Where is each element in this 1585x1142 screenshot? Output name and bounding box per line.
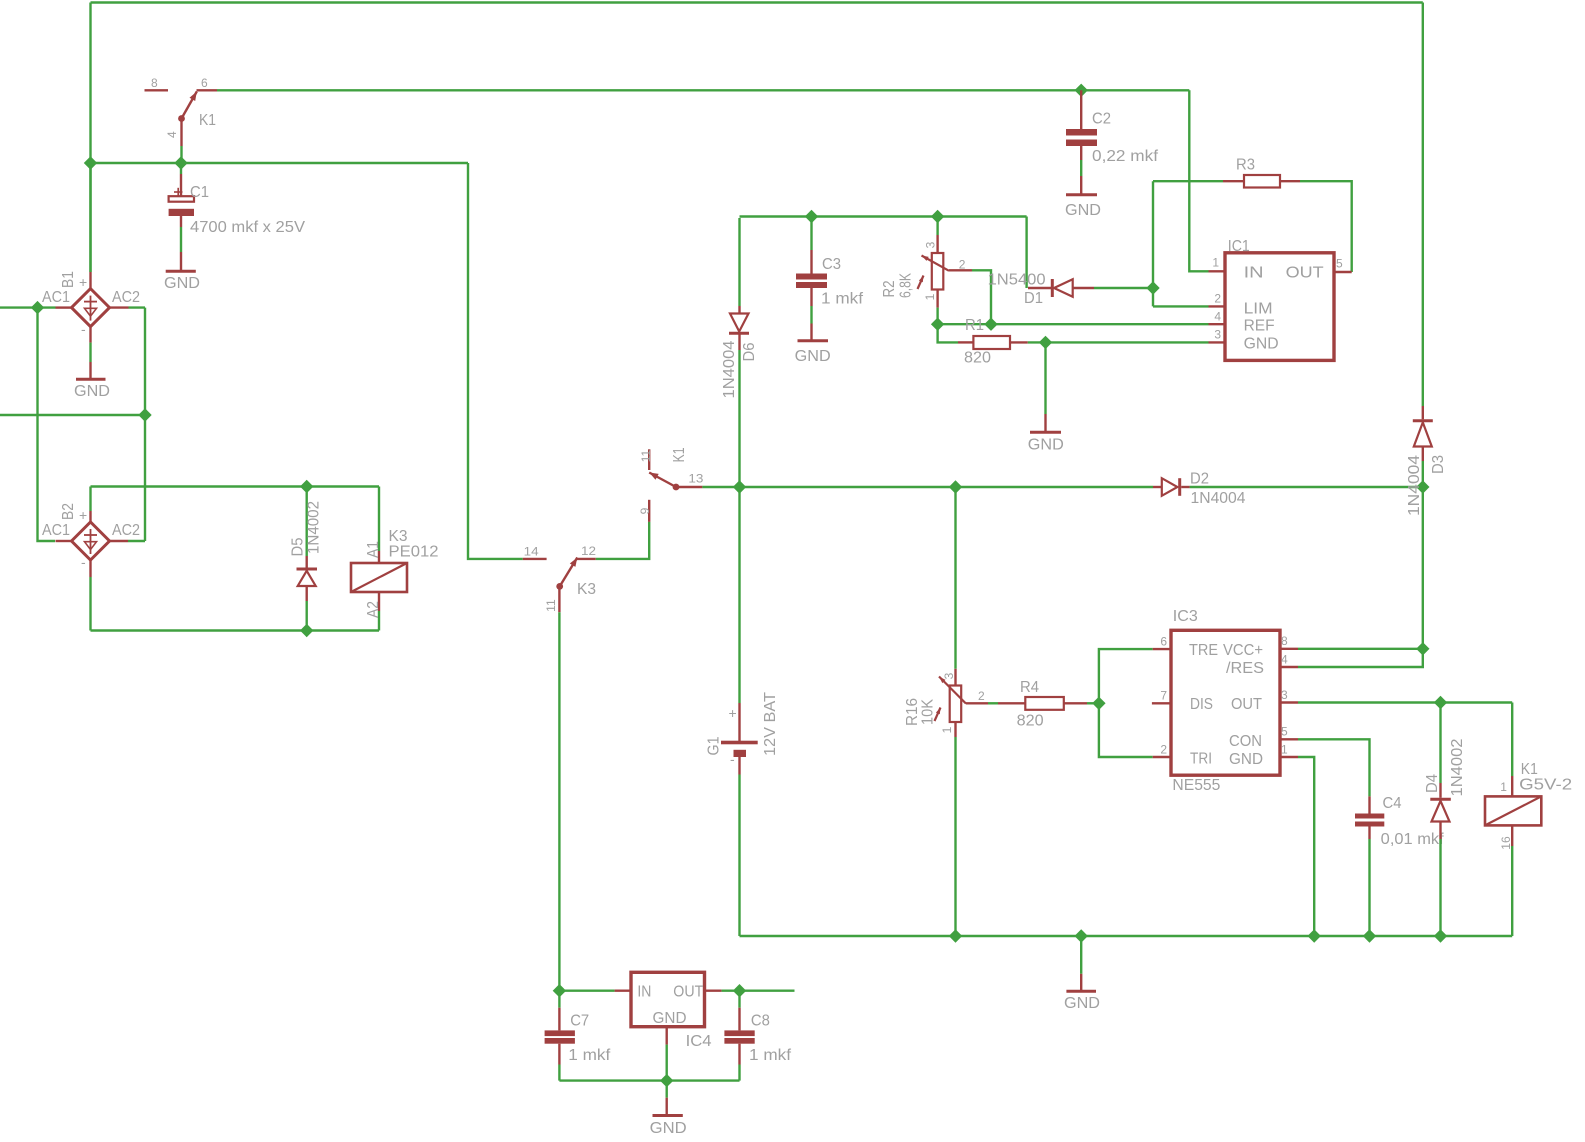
wire R2 wiper to LIM net [972,270,991,324]
svg-text:AC1: AC1 [42,289,70,306]
wire relay loop bottom [91,629,380,631]
svg-text:IC3: IC3 [1173,608,1198,625]
wire R16 wiper to R4 [988,702,998,704]
label IC3 pin5 [1281,725,1288,739]
junction rail 555 gnd [1308,929,1321,942]
svg-text:4700 mkf x 25V: 4700 mkf x 25V [190,219,305,236]
label D5 name [289,537,306,556]
pin IC3 7 DIS stub [1152,702,1171,704]
label K3 pin 12 [581,544,596,558]
label IC3 pin4 [1281,653,1288,667]
pin IC1 3 GND stub [1209,341,1226,343]
label IC3 OUT [1231,696,1262,713]
wire relay loop top [91,485,380,487]
svg-text:G5V-2: G5V-2 [1519,777,1572,794]
label IC4 GND symbol [650,1120,687,1137]
junction rail R16 [949,929,962,942]
switch K1 pin 6 stub [197,89,218,91]
switch K1b pin 13 stub [676,486,702,488]
label R2 name [881,280,898,297]
junction C8 top [733,984,746,997]
wire R1 gnd stem [1044,342,1046,414]
wire to K3 pin14 [468,163,523,559]
wire IC4 gnd stem [666,1045,668,1098]
junction D1 net [1146,281,1159,294]
wire D1 anode [1094,287,1153,289]
wire AC2 vertical [144,308,146,541]
wire rail corner to D1 [1025,217,1027,289]
svg-text:5: 5 [1336,257,1343,271]
switch K3 pin 9 stub [648,500,650,522]
svg-text:-: - [81,321,86,337]
svg-text:PE012: PE012 [389,544,439,561]
svg-text:1 mkf: 1 mkf [821,291,864,308]
label IC3 VCC+ [1223,642,1263,659]
junction VCC/right border [1416,642,1429,655]
svg-text:K3: K3 [577,581,596,598]
wire K3.11 down [558,612,560,991]
svg-text:4: 4 [1214,310,1221,324]
diode D2 [1153,478,1190,496]
pin K1 coil 1 stub [1511,776,1513,796]
wire loop right down [378,487,380,552]
wire C4 bottom [1368,839,1370,936]
wire 555 GND net [1298,757,1314,936]
svg-text:TRI: TRI [1190,751,1212,768]
svg-text:7: 7 [1160,689,1167,703]
svg-text:1: 1 [1281,743,1288,757]
svg-text:D6: D6 [741,342,758,361]
label D1 name [1024,290,1043,307]
wire IC4 OUT right [722,990,795,992]
junction D4 top [1434,696,1447,709]
capacitor C8 [724,1008,754,1065]
label K3 pin 11 [544,599,558,612]
op-amp U IC4 box [631,972,705,1026]
label D3 name [1430,455,1447,474]
wire R2 bottom [936,308,938,325]
bridge rectifier B1 [72,289,110,327]
pin IC3 8 VCC stub [1280,648,1298,650]
label IC1 pin1 [1212,256,1219,270]
svg-text:11: 11 [544,599,558,612]
pin B1 AC2 stub [110,306,129,308]
svg-text:AC1: AC1 [42,522,70,539]
svg-text:D2: D2 [1190,471,1209,488]
svg-text:16: 16 [1499,836,1513,850]
pin B2 - stub [89,560,91,577]
wire C3 top [810,217,812,251]
label G1 plus [729,705,737,721]
svg-text:OUT: OUT [1231,696,1262,713]
label D1 value [988,272,1046,289]
label R16 value [920,699,937,725]
label C2 name [1092,111,1111,128]
junction R2 bottom [931,318,944,331]
junction R2 top rail [931,210,944,223]
wire right border [1422,3,1424,407]
junction C3 top rail [805,210,818,223]
wire D4 top [1439,703,1441,784]
diode D6 [729,306,749,350]
svg-text:R4: R4 [1020,679,1039,696]
label C8 name [751,1013,770,1030]
wire battery bottom [738,775,740,937]
label D2 name [1190,471,1209,488]
svg-text:K1: K1 [199,112,216,129]
svg-text:R2: R2 [881,280,898,297]
svg-text:2: 2 [1214,292,1221,306]
label R1 name [965,317,984,334]
junction rail C4 [1363,929,1376,942]
label IC1 GND [1244,336,1279,353]
pin B2 + stub [89,511,91,522]
label IC4 name [686,1033,712,1050]
label K1 coil value [1519,777,1572,794]
svg-text:6,8K: 6,8K [898,273,915,298]
wire R2 top [936,217,938,236]
svg-text:R3: R3 [1236,157,1255,174]
wire K1.6 to IC1 area [217,89,1189,91]
wire B1 AC2 to vertical [129,306,146,308]
wire 555 TRE loop [1099,649,1153,757]
label IC4 IN [637,983,651,1000]
wire B1 plus up [89,163,91,272]
svg-text:13: 13 [688,472,703,486]
label IC1 IN [1244,265,1264,282]
label K3 name [389,528,408,545]
label K1a pin 4 [165,131,179,138]
pin B1 + stub [89,272,91,289]
label C4 name [1383,795,1402,812]
svg-text:820: 820 [964,350,991,367]
label B2 name [60,503,77,520]
wire B2 plus up [89,487,91,512]
svg-text:1: 1 [923,293,937,300]
svg-text:TRE: TRE [1189,642,1218,659]
label G1 minus [730,751,735,767]
svg-text:K1: K1 [671,447,688,462]
svg-text:GND: GND [74,383,110,400]
svg-text:3: 3 [924,241,938,248]
diode D4 [1430,783,1451,839]
svg-text:1N4002: 1N4002 [1449,738,1466,796]
wire down to IC1 IN [1189,90,1208,271]
label K3 A2 [365,601,382,618]
label B1 name [60,271,77,288]
pin IC4 OUT stub [705,990,722,992]
svg-text:2: 2 [959,258,966,272]
label K1a pin 8 [151,76,158,90]
svg-text:1N5400: 1N5400 [988,272,1046,289]
label G1 name [705,736,722,755]
switch K1 pin 8 stub [145,89,169,91]
ground GND C2 [1066,176,1097,195]
wire R1 right to IC1 GND [1028,341,1209,343]
label IC3 CON [1229,733,1262,750]
pin IC1 2 LIM stub [1209,305,1226,307]
label R16 pin 2 [978,689,985,703]
label R1 GND [1028,437,1064,454]
label B2 AC1 [42,522,70,539]
diode D1 [1028,279,1094,297]
label B1 minus [81,321,86,337]
wire K1.4 to junction [180,146,182,163]
svg-text:GND: GND [653,1010,687,1027]
svg-text:GND: GND [1229,751,1263,768]
pin IC1 4 REF stub [1209,323,1226,325]
pin B2 AC2 stub [110,540,129,542]
label IC1 pin3 [1214,328,1221,342]
wire left border [89,3,91,273]
switch K1a lever [178,92,197,122]
svg-text:LIM: LIM [1244,301,1273,318]
label C3 value [821,291,864,308]
pin IC3 2 TRI stub [1153,756,1171,758]
svg-text:OUT: OUT [673,983,703,1000]
label rail GND [1064,995,1100,1012]
svg-text:B1: B1 [60,271,77,288]
svg-text:VCC+: VCC+ [1223,642,1263,659]
wire C2 bottom [1080,160,1082,176]
label IC3 TRE [1189,642,1218,659]
wire main vertical D6 top [738,218,740,306]
pin IC1 1 IN stub [1209,270,1226,272]
capacitor C4 [1355,796,1384,839]
wire AC line y163 [91,162,469,164]
wire C3 bottom [810,306,812,324]
svg-text:1N4002: 1N4002 [305,501,322,554]
svg-text:G1: G1 [705,736,722,755]
label C2 GND [1065,202,1101,219]
label C1 GND [164,275,200,292]
label IC3 name [1173,608,1198,625]
switch K3 pin 12 stub [577,558,596,560]
pin IC4 IN stub [615,990,631,992]
wire IN to IC4 [559,990,614,992]
pin IC3 5 CON stub [1280,738,1298,740]
switch K3 lever [556,558,577,590]
label K3 A1 [365,541,382,558]
junction C1 / K1.4 [174,156,187,169]
wire C1 top [180,163,182,174]
svg-text:1 mkf: 1 mkf [749,1047,792,1064]
label K3 pin 9 [638,507,652,514]
junction AC2 vertical [138,408,151,421]
junction R16 top [949,480,962,493]
pin IC4 GND stub [666,1027,668,1045]
pin K3 A1 stub [378,551,380,563]
wire LIM into IC1 [1153,305,1209,307]
wire D5 bottom [306,601,308,631]
svg-text:3: 3 [942,672,956,679]
svg-text:12: 12 [581,544,596,558]
ground GND B1 [76,362,106,379]
pin B1 AC1 stub [56,306,72,308]
label IC1 LIM [1244,301,1273,318]
svg-text:4: 4 [1281,653,1288,667]
label C2 value [1092,148,1159,165]
wire R3 left [1153,180,1223,182]
svg-text:IC1: IC1 [1228,238,1250,255]
svg-text:2: 2 [978,689,985,703]
svg-text:1: 1 [1500,780,1507,794]
label IC1 REF [1244,318,1275,335]
label K1a name [199,112,216,129]
svg-text:IN: IN [637,983,651,1000]
svg-text:NE555: NE555 [1172,777,1220,794]
switch K1 pin 4 stub [180,120,182,146]
switch K3 pin 14 stub [523,558,547,560]
label C4 value [1381,831,1445,848]
junction left border / AC line [84,156,97,169]
svg-text:4: 4 [165,131,179,138]
wire right vertical to 555 [1422,487,1424,649]
svg-text:GND: GND [795,348,831,365]
label K1 coil pin1 [1500,780,1507,794]
pin IC3 6 TRE stub [1153,648,1171,650]
wire C1 bottom [180,227,182,252]
label C1 name [190,184,209,201]
label C3 GND [795,348,831,365]
label R16 pin 1 [940,726,954,733]
label D5 value [305,501,322,554]
label B2 minus [81,554,86,570]
pin IC3 1 GND stub [1280,756,1298,758]
svg-text:11: 11 [639,449,653,462]
label IC3 /RES [1226,660,1264,677]
junction C2 top [1075,84,1088,97]
svg-text:-: - [730,751,735,767]
pin IC1 5 OUT stub [1334,271,1352,273]
svg-text:R1: R1 [965,317,984,334]
label R2 pin 2 [959,258,966,272]
label IC3 pin2 [1160,743,1167,757]
ground GND C1 [166,252,196,271]
diode D5 [297,556,318,601]
pin R2 wiper stub [949,269,972,271]
wire bus y487 left [740,486,1154,488]
wire AC1 down to B2 [38,308,56,541]
svg-text:GND: GND [1244,336,1279,353]
svg-text:5: 5 [1281,725,1288,739]
junction D5 top [300,480,313,493]
label D4 value [1449,738,1466,796]
pin B2 AC1 stub [56,540,72,542]
relay coil K3 [351,563,407,592]
svg-text:AC2: AC2 [112,522,140,539]
junction main vertical y487 [733,480,746,493]
svg-text:AC2: AC2 [112,289,140,306]
svg-text:1: 1 [1212,256,1219,270]
diode D3 [1413,406,1433,461]
junction K3.11 / IC4 IN [553,984,566,997]
resistor R3 [1223,175,1300,188]
label C1 value [190,219,305,236]
label B2 AC2 [112,522,140,539]
svg-text:1N4004: 1N4004 [1406,455,1423,516]
wire D5 top [306,487,308,557]
svg-text:B2: B2 [60,503,77,520]
svg-text:GND: GND [650,1120,687,1137]
label R2 pin 1 [923,293,937,300]
wire rail to relay K1 coil [1511,846,1513,936]
potentiometer R16 [935,669,967,737]
svg-text:GND: GND [164,275,200,292]
label R2 pin 3 [924,241,938,248]
label D6 name [741,342,758,361]
wire bus y487 right [1190,486,1423,488]
label K1b name [671,447,688,462]
label IC3 DIS [1190,696,1213,713]
svg-text:12V BAT: 12V BAT [762,692,779,756]
label K1 coil pin16 [1499,836,1513,850]
svg-text:IN: IN [1244,265,1264,282]
label D4 name [1424,774,1441,793]
label IC4 GND [653,1010,687,1027]
pin R16 wiper stub [966,702,988,704]
svg-text:10K: 10K [920,699,937,725]
svg-text:C3: C3 [822,256,841,273]
label R2 value [898,273,915,298]
svg-text:820: 820 [1017,713,1044,730]
svg-text:D5: D5 [289,537,306,556]
capacitor C7 [545,1008,575,1065]
label B2 plus [79,507,87,523]
svg-text:1: 1 [940,726,954,733]
label B1 AC2 [112,289,140,306]
wire C8 top [738,991,740,1008]
svg-text:R16: R16 [904,698,921,726]
pin IC3 3 OUT stub [1280,701,1298,703]
label B1 plus [79,274,87,290]
svg-text:8: 8 [1281,634,1288,648]
label R16 name [904,698,921,726]
wire rail gnd stem [1080,936,1082,974]
wire C8 bottom [738,1065,740,1081]
junction R1 GND net [1039,336,1052,349]
wire C7 bottom [558,1065,560,1081]
switch K1b lever [649,473,679,491]
svg-text:8: 8 [151,76,158,90]
label K1b pin 11 [639,449,653,462]
bridge rectifier B2 [72,522,110,560]
junction IC4 gnd [660,1074,673,1087]
label D3 value [1406,455,1423,516]
label K3 value [389,544,439,561]
label IC3 pin7 [1160,689,1167,703]
wire K3.9 to K3.12 [596,522,649,559]
svg-text:2: 2 [1160,743,1167,757]
label R16 pin 3 [942,672,956,679]
junction rail GND stem [1075,929,1088,942]
wire A2 down [378,611,380,631]
svg-text:0,22 mkf: 0,22 mkf [1092,148,1159,165]
svg-text:3: 3 [1281,688,1288,702]
wire R3 left vertical [1152,181,1154,306]
switch K1b pin 11 stub [648,449,650,470]
pin B1 - stub [89,327,91,343]
svg-text:D4: D4 [1424,774,1441,793]
wire C7 top [558,991,560,1008]
junction bus y487 right [1416,480,1429,493]
label IC1 name [1228,238,1250,255]
pin K3 A2 stub [378,592,380,611]
svg-text:C7: C7 [570,1013,589,1030]
label C8 value [749,1047,792,1064]
resistor R4 [998,697,1087,710]
wire VCC to right border [1298,648,1423,650]
